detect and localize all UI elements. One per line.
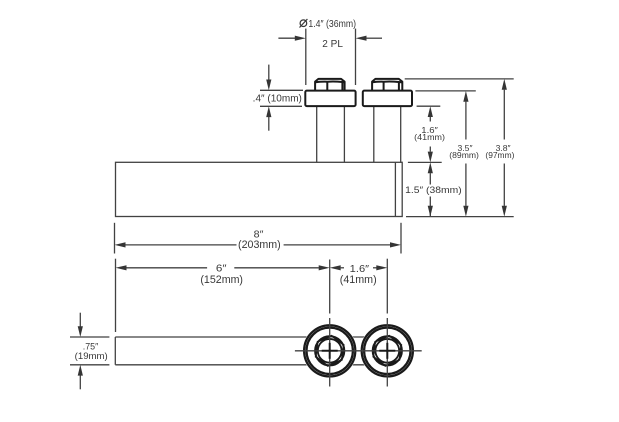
bolt 1 top view hexagon xyxy=(316,336,344,366)
center tick bolt 1 xyxy=(322,343,338,359)
bolt 1 hex head xyxy=(315,79,345,91)
extension line bar bottom right xyxy=(406,216,514,218)
label 2 PL xyxy=(322,39,343,50)
bolt 1 top view washer rings xyxy=(303,324,357,378)
label .75in (19mm) xyxy=(75,342,108,361)
svg-text:2 PL: 2 PL xyxy=(322,39,343,50)
svg-text:(89mm): (89mm) xyxy=(449,150,479,160)
svg-text:(152mm): (152mm) xyxy=(200,274,243,286)
dimension 1.6in right xyxy=(414,106,445,162)
bolt 2 top view head circle xyxy=(373,336,402,365)
front view bar xyxy=(116,162,403,216)
front view bar right end inner line xyxy=(394,162,396,216)
svg-text:1.4″ (36mm): 1.4″ (36mm) xyxy=(308,19,356,30)
label .4in (10mm) xyxy=(253,93,302,104)
dimension 1.5in bar height xyxy=(405,162,462,216)
dimension diameter 1.4in label xyxy=(300,19,357,30)
dimension diameter arrows xyxy=(278,36,382,41)
bolt 1 top view inner circle xyxy=(318,339,342,363)
dimension 8in xyxy=(115,229,402,252)
dimension 1.6in top view xyxy=(330,264,388,286)
extension line bar top right xyxy=(408,161,442,163)
bolt 2 shank xyxy=(374,106,401,163)
extension line washer top xyxy=(415,90,475,92)
svg-text:(19mm): (19mm) xyxy=(75,351,108,361)
dimension diameter extension lines xyxy=(306,29,356,85)
bolt 2 hex head xyxy=(372,79,402,91)
svg-text:1.5″ (38mm): 1.5″ (38mm) xyxy=(405,184,462,195)
dimension 3.5in xyxy=(449,91,479,217)
extension line washer bottom xyxy=(417,105,441,107)
dimension 8in extension lines xyxy=(115,223,402,254)
svg-text:6″: 6″ xyxy=(216,264,227,275)
bolt 1 vertical centerline xyxy=(329,260,331,387)
bolt 1 washer xyxy=(305,91,355,107)
svg-text:(97mm): (97mm) xyxy=(485,150,514,160)
top view bar xyxy=(115,337,402,365)
dimension .75in arrows xyxy=(78,313,83,390)
dimension 6in xyxy=(116,264,330,287)
bolt 2 washer xyxy=(363,91,412,107)
dimension 3.8in xyxy=(485,79,514,217)
bolt 1 shank xyxy=(317,106,345,163)
dimension .4in washer height ticks xyxy=(260,90,303,106)
dimension 6in extension line left xyxy=(115,259,117,332)
horizontal centerline xyxy=(295,350,422,352)
bolt 1 top view head circle xyxy=(315,336,344,365)
svg-text:(41mm): (41mm) xyxy=(340,274,377,286)
dimension .75in ticks xyxy=(70,337,109,365)
bolt 2 vertical centerline xyxy=(386,259,388,387)
bolt 2 top view inner circle xyxy=(375,339,399,363)
svg-text:(41mm): (41mm) xyxy=(414,132,445,142)
svg-text:(203mm): (203mm) xyxy=(238,239,281,251)
bolt 2 top view hexagon xyxy=(373,336,401,366)
extension line head top xyxy=(405,78,514,80)
bolt 2 top view washer rings xyxy=(360,324,414,378)
dimension .4in arrows xyxy=(266,65,271,131)
center tick bolt 2 xyxy=(379,343,395,359)
svg-text:.4″ (10mm): .4″ (10mm) xyxy=(253,93,302,104)
